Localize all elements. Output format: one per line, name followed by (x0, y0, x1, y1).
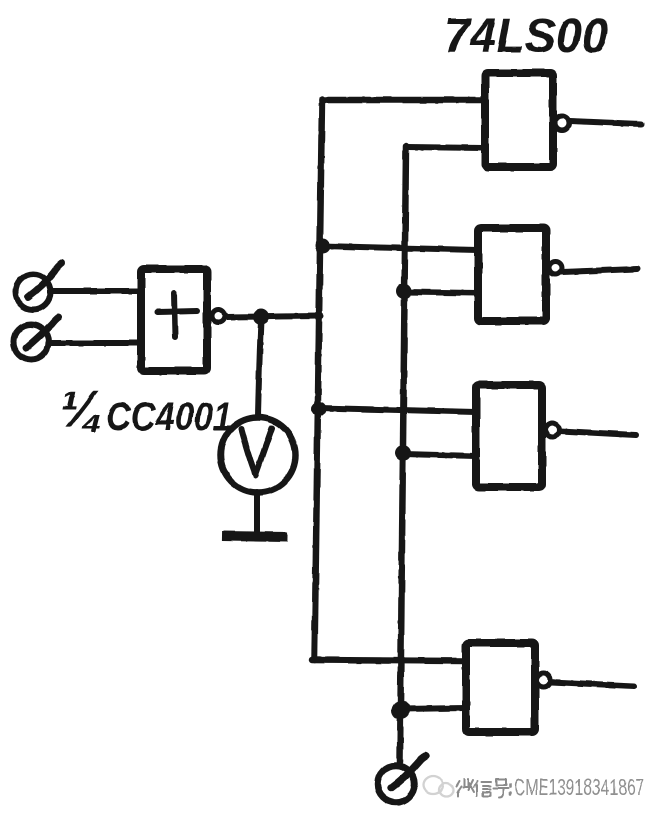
input terminal J2 (14, 317, 60, 360)
wire: G2 output (562, 269, 637, 272)
wire: gate G1 top input from node A (322, 97, 484, 104)
junction: node A to G3 input (312, 402, 327, 417)
wire: gate G1 bottom input from node B (407, 147, 483, 148)
svg-text:74LS00: 74LS00 (444, 10, 608, 63)
NAND gate G4 (1/4 74LS00) (466, 643, 551, 732)
wire: gate G2 bottom input from node B (404, 292, 478, 293)
probe terminal J3 (378, 756, 427, 803)
wire: voltmeter to ground (254, 492, 260, 533)
NAND gate G2 (1/4 74LS00) (478, 228, 562, 321)
junction: node B to G2 input (396, 283, 412, 299)
wire: J1 to U2 input A (51, 288, 141, 294)
svg-text:¼: ¼ (60, 381, 103, 439)
ground (222, 536, 287, 537)
svg-text:CME13918341867: CME13918341867 (514, 774, 644, 800)
wire: J2 to U2 input B (50, 340, 141, 346)
wire: U2 output to node A (226, 316, 321, 317)
NOR gate U2 (1/4 CC4001) (141, 269, 225, 371)
wire: G3 output (560, 431, 636, 435)
wire: gate G2 top input from node A (322, 246, 478, 250)
wire: G1 output (570, 121, 641, 124)
watermark: text WeChat ID (456, 774, 644, 800)
wire: gate G3 bottom input from node B (403, 454, 476, 456)
voltmeter M1 (221, 418, 296, 493)
junction: node B to G4 input and probe (392, 701, 411, 720)
wire: G4 output (551, 682, 634, 686)
wire: node A vertical bus (315, 99, 323, 660)
svg-text:CC4001: CC4001 (106, 395, 232, 439)
label: 1/4 CC4001 (60, 381, 232, 439)
junction: node B to G3 input (395, 445, 411, 461)
NAND gate G1 (1/4 74LS00) (485, 73, 569, 167)
watermark: WeChat logo (423, 776, 453, 797)
junction: node A to G2 input (316, 239, 331, 254)
junction: voltmeter tap on U2 output (253, 309, 269, 325)
wire: gate G4 top input from node A (312, 660, 466, 661)
input terminal J1 (16, 263, 63, 310)
NAND gate G3 (1/4 74LS00) (476, 385, 560, 487)
wire: node B vertical bus (400, 146, 406, 762)
wire: gate G4 bottom input from node B (401, 708, 466, 709)
wire: gate G3 top input from node A (319, 408, 476, 412)
wire: tap down to voltmeter (258, 320, 261, 416)
